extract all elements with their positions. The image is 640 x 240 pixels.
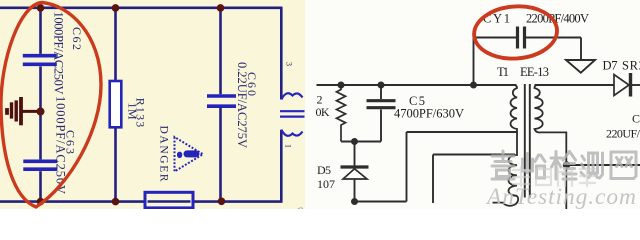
transformer core lines — [525, 84, 530, 198]
fuse at bottom — [145, 192, 193, 208]
node top R133 — [112, 4, 120, 12]
wire top rail — [0, 7, 283, 10]
glyph 4 ce — [581, 153, 603, 178]
glyph 2 yu — [523, 154, 546, 179]
right schematic labels — [316, 12, 640, 192]
svg-text:1M: 1M — [126, 103, 140, 120]
left schematic background — [0, 0, 305, 209]
svg-text:D7: D7 — [603, 59, 618, 73]
wire CY1 left drop — [473, 38, 475, 86]
wire clamp bottom — [341, 141, 381, 143]
wire aux winding feed — [433, 155, 515, 204]
fuse inner line — [148, 200, 191, 202]
junction dots right schematic — [338, 82, 571, 206]
transformer (left schematic, rotated) coil top winding — [280, 93, 305, 136]
wire right border upper — [280, 8, 283, 100]
svg-text:1000PF/AC250V: 1000PF/AC250V — [52, 12, 66, 95]
right schematic background — [305, 0, 640, 209]
wire column R133 — [114, 8, 117, 82]
wire CY1 right segment — [526, 37, 581, 39]
transformer T1 primary winding — [508, 85, 517, 196]
node bottom C60 — [218, 198, 226, 206]
capacitor C60 plates — [207, 96, 236, 106]
node D5 bottom — [351, 198, 358, 205]
transformer core lines — [280, 110, 305, 112]
watermark big CJK row — [492, 151, 636, 179]
red ellipse annotation left — [1, 3, 101, 208]
node ground tap — [37, 108, 45, 116]
node rail R — [338, 82, 345, 89]
svg-text:C: C — [632, 112, 640, 126]
node rail CY1 — [470, 82, 477, 89]
wire CY1 left segment — [474, 37, 517, 39]
wire CY1 earth drop — [580, 38, 582, 61]
svg-text:D5: D5 — [317, 163, 331, 177]
resistor zigzag — [337, 85, 346, 142]
watermark faint middle row — [513, 167, 595, 186]
red ellipse annotation CY1 — [472, 4, 558, 62]
transformer coil bottom winding — [281, 130, 302, 136]
capacitor CY1 plates — [518, 27, 525, 49]
node rail C5 — [378, 82, 385, 89]
left schematic labels (rotated 90deg) — [52, 12, 294, 195]
svg-text:AnTesting.com: AnTesting.com — [485, 184, 636, 209]
svg-text:220UF/: 220UF/ — [606, 127, 640, 141]
wire column C60 — [219, 8, 222, 94]
capacitor C62 plates — [23, 56, 57, 65]
wire column C62/C63 — [39, 8, 42, 54]
svg-text:EE-13: EE-13 — [520, 65, 549, 79]
wire bottom rail — [0, 200, 283, 203]
diode D7 — [614, 73, 640, 97]
glyph 1 jia — [492, 151, 514, 179]
node bottom R133 — [112, 198, 120, 206]
svg-text:SR2: SR2 — [622, 59, 640, 73]
svg-text:107: 107 — [317, 177, 335, 191]
glyph 3 jian — [551, 152, 576, 180]
danger warning triangle — [175, 137, 204, 172]
node clamp D5 — [351, 138, 358, 145]
ground symbol (maroon) — [7, 97, 39, 125]
capacitor C5 — [367, 85, 396, 142]
transformer secondary winding — [535, 85, 567, 209]
node top C60 — [217, 4, 225, 12]
svg-text:3: 3 — [285, 62, 294, 66]
wire output right — [566, 164, 640, 166]
svg-text:T1: T1 — [497, 65, 509, 79]
diode D5 — [341, 142, 369, 202]
svg-text:c: c — [296, 202, 303, 209]
wire D5 bottom to clamp return — [355, 132, 518, 202]
junction dots (maroon) — [37, 4, 226, 205]
wire right border lower — [280, 130, 283, 202]
wire main rail — [317, 84, 517, 86]
capacitor C63 plates — [23, 161, 57, 169]
node top C62 — [37, 4, 45, 12]
node secondary output — [563, 161, 570, 168]
earth symbol — [566, 60, 595, 73]
wire secondary top to D7 — [535, 84, 615, 86]
svg-text:0K: 0K — [316, 105, 330, 119]
node bottom C63 — [37, 198, 45, 206]
transformer aux winding hook — [493, 196, 519, 206]
glyph 5 wang — [611, 152, 636, 179]
svg-text:4700PF/630V: 4700PF/630V — [394, 107, 464, 121]
svg-text:1: 1 — [284, 144, 293, 148]
svg-text:0.22UF/AC275V: 0.22UF/AC275V — [235, 62, 249, 148]
svg-text:C62: C62 — [70, 27, 84, 50]
resistor R133 body — [110, 81, 122, 127]
